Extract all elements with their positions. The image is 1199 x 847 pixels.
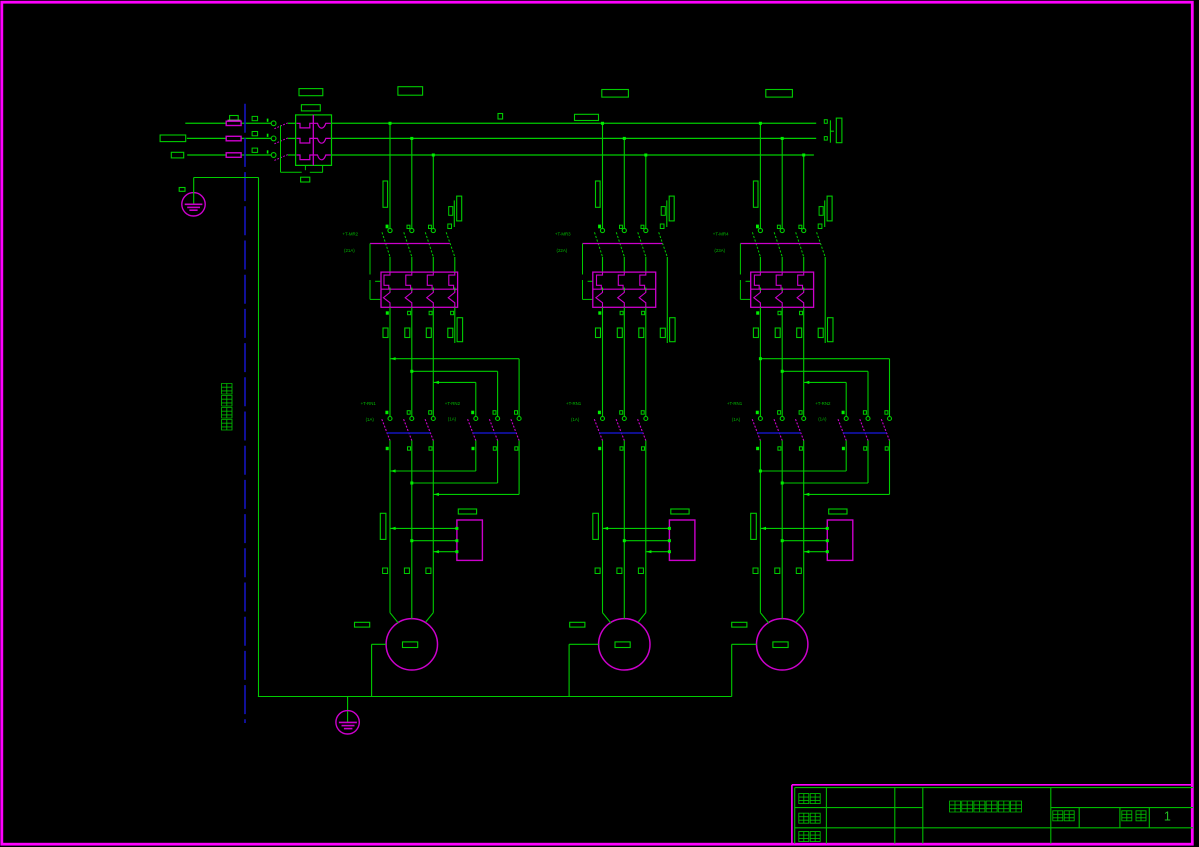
aux tall rect [670,318,676,342]
ground symbol PE1 [182,193,205,216]
breaker blade [774,232,782,256]
trip bar [740,243,820,245]
aux stub [453,200,455,227]
thermal element [384,272,390,289]
fuse FU2 [226,136,241,141]
label 数量 [1122,811,1132,821]
tall rect marker [383,181,388,207]
thermal element [776,272,782,289]
thermal element [427,272,433,289]
contactor N1 [598,411,601,415]
label 设备界线 (vertical) [222,384,233,395]
motor M1 [386,619,437,670]
terminal square [638,568,643,574]
switch blade [274,123,287,129]
svg-text:1: 1 [1164,810,1171,824]
label rect [753,328,758,338]
terminal square [753,568,758,574]
title block [792,784,1193,786]
terminal square [429,311,432,314]
wire L1 [185,122,226,124]
breaker blade [382,232,390,256]
breaker trip-unit box [751,272,814,307]
terminal square [598,311,601,314]
motor outer label rect [570,622,585,627]
thermal element [798,272,804,289]
fuse FU1 [230,116,239,121]
pole tick [267,150,269,153]
motor M2 [599,619,650,670]
title 机床动力线路 [950,801,961,812]
label rect [829,509,847,514]
contactor blade [860,419,868,440]
terminal square [617,568,622,574]
breaker trip-unit box [593,272,656,307]
terminal square [800,311,803,314]
thermal relay box [457,520,483,560]
svg-text:+T-MR2: +T-MR2 [342,232,358,237]
terminal square [756,311,759,314]
svg-text:+T-RN2: +T-RN2 [815,401,831,406]
svg-text:(23A): (23A) [714,248,725,253]
svg-text:+T-RN1: +T-RN1 [566,401,582,406]
aux stub [824,200,826,227]
relay tap wires [603,527,670,529]
motor PE wire [372,643,387,645]
magnetic element [427,289,434,307]
thermal element [406,272,412,289]
svg-text:+T-RN1: +T-RN1 [727,401,743,406]
PE wire [193,178,195,194]
breaker R3 [598,225,601,229]
magnetic element [754,289,761,307]
terminal square [426,568,431,574]
terminal square [383,568,388,574]
label rect [671,509,689,514]
svg-text:(22A): (22A) [557,248,568,253]
aux blade [446,232,455,257]
relay tap wires [760,527,827,529]
svg-text:(1A): (1A) [732,417,741,422]
aux stub [666,200,668,227]
terminal square [386,311,389,314]
junction [410,137,413,140]
label rect [797,328,802,338]
motor M3 [757,619,808,670]
tall rect [380,513,386,539]
label rect [426,328,431,338]
label rect [405,328,410,338]
thermal element [597,272,603,289]
magnetic element [639,289,646,307]
line end terminals [824,120,827,124]
main switch QS [271,121,276,126]
terminal square [778,311,781,314]
fuse element [297,138,314,143]
svg-text:+T-MR4: +T-MR4 [713,232,729,237]
contactor blade [404,419,412,440]
junction [759,122,762,125]
junction [802,154,805,157]
label 校核 [799,813,809,823]
breaker blade [752,232,760,256]
contactor blade [796,419,804,440]
tap wire [759,123,761,228]
wire L2 [187,137,226,139]
junction [781,137,784,140]
aux tall rect [828,318,834,342]
contactor blade [881,419,889,440]
aux pole wire [666,257,668,343]
main fuse-switch box [296,115,332,165]
fuse element [297,123,314,128]
phase-swap crossing wires (top) [759,307,761,416]
contactor N2 [842,411,845,415]
terminal square [451,311,454,314]
ground symbol PE2 [347,697,349,723]
contactor N1 [385,411,388,415]
thermal relay box [827,520,853,560]
aux pole wire [824,257,826,343]
equipment boundary dashed line [244,104,246,723]
contactor blade [774,419,782,440]
label rect [596,328,601,338]
output crossing wires (bottom) [759,441,761,613]
label rect [775,328,780,338]
svg-text:(1A): (1A) [448,417,457,422]
tap wire [432,155,434,228]
tall rect [751,513,757,539]
terminal square [252,116,258,120]
magnetic element [618,289,625,307]
motor PE wire [732,643,757,645]
breaker R2 [386,225,389,229]
junction [601,122,604,125]
contactor blade [838,419,846,440]
motor label rect [615,642,630,648]
magnetic element [383,289,390,307]
magnetic element [596,289,603,307]
tall rect marker [753,181,758,207]
motor outer label rect [355,622,370,627]
breaker blade [616,232,624,256]
PE riser [258,178,260,697]
tap wire [645,155,647,228]
contactor blade [638,419,646,440]
breaker blade [404,232,412,256]
contactor blade [594,419,602,440]
tap wire [623,138,625,228]
breaker blade [796,232,804,256]
switch blade [274,138,287,144]
terminal square [595,568,600,574]
junction [389,122,392,125]
tap wire [411,138,413,228]
aux tall rect [457,318,463,342]
tall rect [593,513,599,539]
linkage bar [757,432,800,434]
tap wire [803,155,805,228]
PE bus [258,696,732,698]
terminal square [620,311,623,314]
linkage bar [600,432,643,434]
thermal element [754,272,760,289]
label rect [639,328,644,338]
aux blade [817,232,826,257]
svg-text:+T-MR3: +T-MR3 [555,232,571,237]
svg-text:(1A): (1A) [571,417,580,422]
pole tick [267,134,269,137]
switch linkage bar [280,125,282,172]
contactor N1 [756,411,759,415]
label 审图 [799,832,809,842]
breaker R4 [756,225,759,229]
wire L3 [187,154,226,156]
svg-text:(1A): (1A) [818,417,827,422]
junction [432,154,435,157]
linkage bar [843,432,886,434]
PE label rect [179,188,185,192]
svg-text:+T-RN2: +T-RN2 [445,401,461,406]
motor outer label rect [732,622,747,627]
magnetic element [776,289,783,307]
breaker blade [425,232,433,256]
tall rect marker [596,181,601,207]
wire number rects [398,87,423,96]
magnetic element [448,289,455,307]
magnetic element [405,289,412,307]
junction [623,137,626,140]
terminal square [252,132,258,136]
breaker blade [638,232,646,256]
fuse box center bar [312,115,314,165]
aux blade [659,232,668,257]
tap wire [602,123,604,228]
contactor N2 [471,411,474,415]
pole tick [267,119,269,122]
contactor blade [752,419,760,440]
trip bar [370,243,450,245]
trip bar [583,243,663,245]
phase-swap crossing wires (top) [389,307,391,416]
contactor blade [425,419,433,440]
motor label rect [403,642,418,648]
motor label rect [773,642,788,648]
thermal element [640,272,646,289]
linkage bar [387,432,430,434]
tap wire [781,138,783,228]
terminal square [404,568,409,574]
tap wire [389,123,391,228]
contactor blade [382,419,390,440]
label rect [617,328,622,338]
terminal square [408,311,411,314]
aux pole wire [454,307,456,343]
thermal element [449,272,455,289]
terminal square [775,568,780,574]
terminal square [252,148,258,152]
thermal element [618,272,624,289]
svg-text:(21A): (21A) [344,248,355,253]
svg-text:+T-RN1: +T-RN1 [361,401,377,406]
terminal square [642,311,645,314]
switch blade [274,155,287,161]
junction [644,154,647,157]
contactor blade [489,419,497,440]
contactor blade [511,419,519,440]
fuse FU3 [226,153,241,158]
contactor blade [616,419,624,440]
label rect below switch [301,177,310,182]
contactor blade [468,419,476,440]
thermal relay box [669,520,695,560]
terminal square [796,568,801,574]
label rect [458,509,476,514]
linkage bar [473,432,516,434]
breaker blade [595,232,603,256]
magnetic element [797,289,804,307]
label 比例 [1053,811,1063,821]
label rect L2 [160,135,186,142]
label rect L3 [171,152,183,158]
relay tap wires [390,527,457,529]
svg-text:(1A): (1A) [366,417,375,422]
label rect [383,328,388,338]
breaker trip-unit box [381,272,458,307]
output crossing wires (bottom) [389,441,391,613]
motor PE wire [569,643,599,645]
label 制图 [799,794,809,804]
label rects above switch box [299,89,323,96]
fuse element [297,155,314,160]
